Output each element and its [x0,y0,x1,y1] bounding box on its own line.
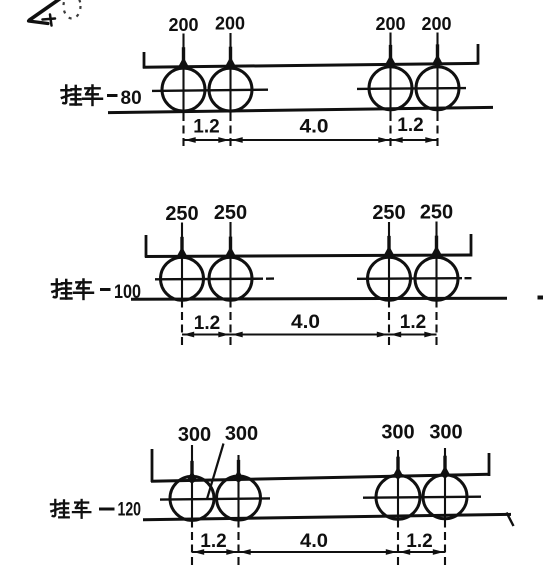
axle centre line, right wheel pair [363,497,481,498]
wheel centre line, axle 2 [229,258,231,299]
trailer label 挂车-100 [52,279,141,303]
wheel circle, axle 4 [415,257,458,300]
load arrow line, axle 4 [433,33,443,67]
svg-text:300: 300 [381,422,414,444]
svg-text:4.0: 4.0 [300,117,329,138]
svg-text:250: 250 [165,203,198,225]
svg-text:200: 200 [375,14,405,34]
stray ink dot at right margin [538,296,544,300]
wheel centre line, axle 3 [389,66,391,113]
svg-text:4.0: 4.0 [291,312,320,333]
ground line [131,298,507,299]
wheel centre line, axle 4 [435,257,437,299]
trailer label 挂车-80 [61,85,141,109]
svg-text:300: 300 [178,424,211,446]
svg-text:4.0: 4.0 [300,531,328,552]
svg-text:250: 250 [372,202,405,224]
trailer label 挂车-120 [51,500,141,521]
extension line below ground, axle 3 [388,300,390,349]
svg-text:1.2: 1.2 [400,312,426,333]
ground line end tick [507,513,514,527]
wheel circle, axle 2 [209,257,252,300]
ground line [143,514,511,519]
svg-text:300: 300 [429,422,462,444]
load arrow line, axle 1 [179,34,189,70]
wheel centre line, axle 1 [191,482,193,519]
wheel centre line, axle 3 [397,478,399,519]
load arrow line, axle 2 [226,33,236,69]
svg-text:80: 80 [121,88,142,109]
extension line below ground, axle 3 [397,520,399,566]
wheel circle, axle 1 [170,476,214,520]
wheel centre line, axle 3 [388,257,390,299]
dimension line row (1.2 / 4.0 / 1.2) [192,549,445,555]
extension line below ground, axle 1 [181,300,183,349]
trailer body line with end hooks [143,44,479,69]
dimension line row (1.2 / 4.0 / 1.2) [184,137,438,143]
extension line below ground, axle 4 [435,300,437,349]
axle centre line, right wheel pair [357,87,466,90]
axle centre line, left wheel pair [155,278,263,281]
wheel circle, axle 2 [209,68,252,111]
dimension line row (1.2 / 4.0 / 1.2) [182,332,437,338]
wheel centre line, axle 4 [444,477,446,519]
wheel centre line, axle 4 [436,66,438,113]
wheel circle, axle 1 [161,257,204,300]
extension line below ground, axle 1 [182,113,184,150]
wheel centre line, axle 2 [237,481,239,519]
extension line below ground, axle 4 [436,113,438,150]
load arrow line, axle 1 [187,445,197,483]
wheel centre line, axle 2 [229,68,231,113]
load arrow line, axle 4 [440,448,450,478]
handwritten page number mark (top-left, cropped) [29,0,81,26]
wheel circle, axle 3 [369,67,412,110]
axle centre line right pair, dash tail [465,277,472,279]
axle centre line, right wheel pair [357,277,462,280]
wheel centre line, axle 1 [181,258,183,299]
load arrow line, axle 2 [234,455,244,482]
load arrow line, axle 1 [177,223,187,259]
svg-text:1.2: 1.2 [200,531,226,552]
svg-text:200: 200 [168,15,198,35]
svg-text:1.2: 1.2 [397,115,423,136]
axle centre line, left wheel pair [152,90,268,91]
extension line below ground, axle 1 [191,520,193,566]
svg-text:1.2: 1.2 [193,117,219,138]
load arrow line, axle 4 [432,222,442,258]
svg-text:250: 250 [214,202,247,224]
load arrow line, axle 3 [393,450,403,479]
svg-text:200: 200 [421,14,451,34]
axle centre line left pair, dash tail [266,277,274,280]
svg-text:200: 200 [215,14,245,34]
wheel circle, axle 4 [416,67,459,110]
wheel circle, axle 3 [368,257,411,300]
svg-text:1.2: 1.2 [406,531,432,552]
extension line below ground, axle 2 [229,300,231,349]
extension line below ground, axle 2 [229,113,231,150]
svg-text:300: 300 [225,423,258,445]
load arrow line, axle 2 [226,222,236,259]
svg-text:250: 250 [420,202,453,224]
trailer body line with end hooks [151,449,490,482]
extension line below ground, axle 3 [389,113,391,150]
svg-text:120: 120 [118,500,142,521]
wheel circle, axle 2 [217,476,261,520]
svg-text:1.2: 1.2 [194,313,220,334]
leader line from 2nd 300 label to wheel gap [207,444,224,500]
wheel circle, axle 3 [376,475,420,519]
extension line below ground, axle 4 [444,520,446,566]
load arrow line, axle 3 [384,222,394,258]
load arrow line, axle 3 [386,33,396,67]
axle centre line, left wheel pair [160,498,270,499]
extension line below ground, axle 2 [237,520,239,566]
wheel centre line, axle 1 [182,69,184,113]
wheel circle, axle 1 [162,68,205,111]
ground line [108,107,493,112]
trailer body line with end hooks [145,234,472,258]
wheel circle, axle 4 [423,475,467,519]
